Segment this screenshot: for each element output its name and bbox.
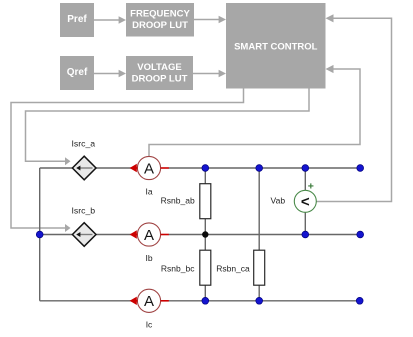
svg-text:SMART CONTROL: SMART CONTROL (234, 42, 318, 53)
svg-text:A: A (144, 227, 154, 244)
svg-text:Vab: Vab (271, 195, 286, 205)
svg-text:DROOP LUT: DROOP LUT (132, 74, 188, 85)
svg-text:Isrc_a: Isrc_a (71, 139, 95, 149)
svg-text:Isrc_b: Isrc_b (71, 206, 95, 216)
svg-text:A: A (144, 293, 154, 310)
svg-text:A: A (144, 160, 154, 177)
svg-text:Ia: Ia (145, 187, 152, 197)
svg-text:Rsbn_ca: Rsbn_ca (216, 264, 250, 274)
svg-text:VOLTAGE: VOLTAGE (137, 62, 182, 73)
svg-text:Pref: Pref (67, 14, 87, 25)
svg-text:DROOP LUT: DROOP LUT (132, 20, 188, 31)
svg-text:FREQUENCY: FREQUENCY (130, 9, 190, 20)
svg-text:Ib: Ib (145, 253, 152, 263)
svg-text:Qref: Qref (67, 67, 88, 78)
svg-text:Ic: Ic (146, 319, 153, 329)
svg-text:Rsnb_bc: Rsnb_bc (161, 264, 195, 274)
svg-text:Rsnb_ab: Rsnb_ab (161, 196, 195, 206)
svg-text:<: < (301, 194, 310, 211)
svg-text:+: + (308, 180, 314, 192)
